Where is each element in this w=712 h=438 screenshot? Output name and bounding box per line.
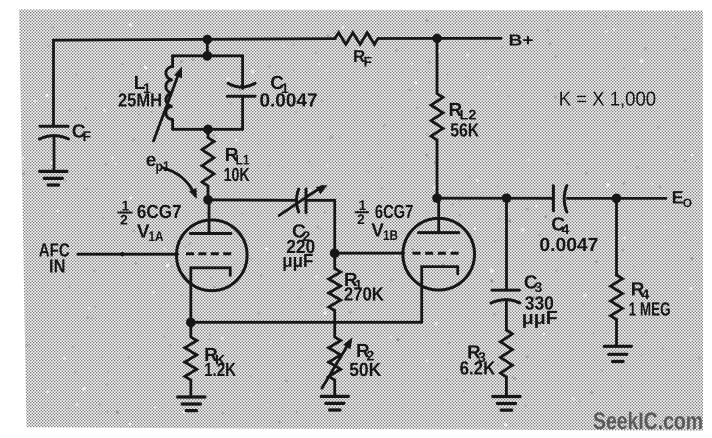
svg-text:6.2K: 6.2K [460,358,496,379]
svg-text:IN: IN [49,257,66,278]
svg-text:270K: 270K [344,285,384,306]
svg-text:0.0047: 0.0047 [260,91,318,112]
svg-text:0.0047: 0.0047 [539,235,598,256]
svg-text:2: 2 [120,212,128,228]
svg-text:50K: 50K [349,360,381,381]
svg-text:F: F [364,54,373,70]
svg-text:F: F [83,128,92,144]
svg-text:K = X 1,000: K = X 1,000 [559,89,656,111]
svg-text:1A: 1A [149,228,164,244]
svg-text:μμF: μμF [282,251,313,272]
svg-text:1.2K: 1.2K [204,360,236,381]
svg-text:1B: 1B [383,227,398,243]
svg-text:1 MEG: 1 MEG [629,299,671,320]
svg-text:B+: B+ [509,33,534,50]
svg-text:10K: 10K [224,165,250,186]
svg-text:56K: 56K [450,121,479,142]
svg-text:2: 2 [357,211,365,227]
svg-text:1: 1 [143,80,151,96]
svg-text:O: O [683,196,692,210]
svg-text:6CG7: 6CG7 [137,202,182,223]
svg-text:p1: p1 [156,158,170,174]
svg-text:SeekIC.com: SeekIC.com [593,408,703,435]
svg-text:μμF: μμF [522,308,558,329]
